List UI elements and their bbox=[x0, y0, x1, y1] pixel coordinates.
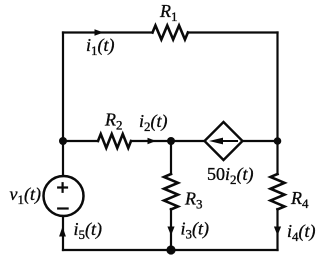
svg-text:i5(t): i5(t) bbox=[74, 219, 103, 242]
svg-text:v1(t): v1(t) bbox=[10, 184, 42, 207]
svg-text:i3(t): i3(t) bbox=[181, 219, 210, 242]
svg-text:i1(t): i1(t) bbox=[86, 35, 115, 58]
svg-text:i2(t): i2(t) bbox=[139, 111, 168, 134]
svg-text:i4(t): i4(t) bbox=[287, 221, 316, 244]
